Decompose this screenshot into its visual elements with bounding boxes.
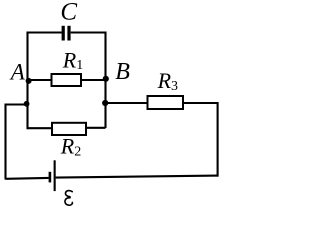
svg-text:R1: R1 bbox=[62, 48, 83, 74]
svg-text:R3: R3 bbox=[157, 68, 178, 94]
svg-text:A: A bbox=[9, 59, 26, 84]
svg-text:B: B bbox=[115, 59, 130, 85]
svg-text:R2: R2 bbox=[60, 134, 81, 160]
svg-text:C: C bbox=[60, 0, 77, 25]
